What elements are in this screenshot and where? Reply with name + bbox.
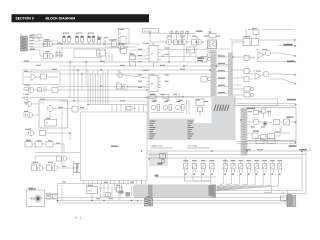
module label 2: [187, 146, 209, 148]
wire: [45, 195, 58, 199]
transistor Q14: [195, 50, 222, 57]
svg-text:BLOCK DIAGRAM: BLOCK DIAGRAM: [46, 17, 76, 21]
wire: [60, 100, 147, 104]
accessory connector: [281, 192, 296, 206]
wire: [142, 150, 217, 184]
svg-text:MAIN UNIT: MAIN UNIT: [152, 145, 164, 148]
svg-text:RX UNIT: RX UNIT: [144, 31, 153, 33]
module label 1: [151, 145, 173, 148]
svg-text:L1: L1: [62, 34, 64, 36]
op-amp U2: [253, 61, 297, 85]
pa transistor Q11: [247, 108, 283, 126]
page number: [75, 216, 81, 220]
ground bus: [58, 185, 286, 203]
capacitor bank: [99, 184, 112, 198]
relay boxes right: [244, 56, 255, 82]
wire dots 2: [61, 41, 286, 201]
svg-text:J2: J2: [73, 161, 75, 163]
svg-text:REG: REG: [88, 190, 93, 192]
pin name column 1: [150, 121, 156, 139]
mixer loop frame: [74, 49, 100, 58]
svg-text:L2: L2: [75, 34, 77, 36]
ribbon cable A: [211, 50, 217, 107]
pa filter boxes: [284, 119, 290, 125]
IC1 IF amp: [140, 44, 161, 68]
op-amp U1 mute: [256, 50, 297, 63]
volume pot: [53, 194, 58, 199]
filter L3: [87, 34, 95, 44]
speaker box: [26, 188, 44, 206]
speaker SP1: [30, 195, 42, 202]
resistor R45: [47, 193, 52, 199]
wire: [205, 28, 245, 58]
capacitor C40: [116, 187, 122, 200]
title bar: [12, 14, 150, 22]
svg-text:IC101: IC101: [150, 44, 156, 46]
svg-text:L3: L3: [87, 34, 89, 36]
tx vco cluster: [208, 32, 218, 49]
wire: [233, 57, 246, 85]
resistor R33: [127, 107, 137, 111]
svg-text:SECTION 9: SECTION 9: [16, 17, 34, 21]
wire: [246, 57, 255, 74]
wire: [217, 57, 229, 94]
choke coil: [118, 181, 134, 198]
wire: [230, 39, 297, 46]
svg-text:Q16: Q16: [116, 82, 120, 84]
transistor Q4: [165, 37, 178, 62]
wire: [148, 141, 310, 158]
discriminator X1: [118, 46, 127, 53]
pot feed wires: [186, 158, 226, 164]
IC2 audio: [140, 74, 161, 92]
trim pot R62: [231, 160, 236, 175]
svg-text:J3: J3: [282, 192, 284, 194]
trim pot R61: [223, 160, 228, 175]
resistor R8: [56, 50, 61, 58]
wire: [130, 50, 206, 60]
label box: [143, 29, 159, 34]
trim pot R51: [183, 160, 188, 175]
filter L1: [62, 34, 70, 44]
lpf cluster: [25, 139, 64, 147]
module top label: [235, 99, 298, 106]
wire: [54, 44, 122, 48]
vhf pa module frame: [241, 108, 297, 156]
trim pot R52: [192, 160, 197, 175]
resistor R30: [148, 92, 156, 103]
svg-text:PLL UNIT: PLL UNIT: [188, 146, 198, 148]
driver box: [281, 117, 297, 134]
vertical wire: [302, 144, 310, 194]
component value labels: [24, 28, 271, 199]
wire bus: [22, 62, 228, 74]
wire: [264, 185, 288, 203]
wire: [22, 87, 147, 98]
ribbon cable B: [228, 52, 233, 100]
net label: [245, 149, 307, 150]
trim pot R53: [201, 160, 206, 175]
trim pot R68: [277, 160, 282, 175]
mic amp Q13: [47, 163, 79, 170]
audio section frame: [23, 72, 60, 85]
module inner coils: [151, 100, 189, 114]
trim pot R54: [210, 160, 215, 175]
transistor Q8 pll: [25, 99, 39, 106]
transistor Q1 rf amp: [44, 39, 55, 46]
trim pot R64: [246, 160, 251, 175]
transistor Q7: [27, 85, 147, 92]
capacitor C2: [31, 35, 41, 42]
power filter box: [86, 184, 98, 200]
wire: [29, 38, 141, 50]
connector J1: [20, 34, 34, 51]
transistor Q10 vco: [27, 128, 70, 140]
oscillator X2: [246, 28, 259, 39]
mic amp Q12: [31, 163, 46, 171]
net label TX: [197, 58, 204, 62]
capacitor strings top: [170, 30, 203, 40]
wire: [159, 32, 197, 34]
wire: [150, 33, 204, 42]
svg-text:9 - 1: 9 - 1: [75, 216, 81, 220]
wire: [262, 30, 297, 47]
transistor Q9: [26, 110, 39, 117]
ribbon band: [134, 185, 216, 198]
filter L2: [75, 34, 83, 44]
trim pot R66: [262, 160, 267, 175]
pot wires to ribbon: [184, 173, 278, 191]
fan junction: [209, 185, 215, 196]
antenna switch boxes: [256, 139, 280, 144]
ribbon hatch joint: [214, 105, 229, 112]
main board module: [147, 96, 236, 140]
mixer box: [97, 50, 106, 62]
net labels: [218, 56, 225, 94]
capacitor C21: [24, 112, 26, 118]
svg-text:U1: U1: [256, 50, 258, 52]
wire: [58, 183, 135, 185]
af amp cluster: [57, 156, 69, 165]
pll section box: [39, 100, 68, 128]
buffer Q21: [201, 77, 217, 83]
filter L4: [97, 36, 100, 46]
svg-text:U2: U2: [253, 71, 255, 73]
buffer box mid: [68, 107, 89, 113]
vertical bus mid: [88, 70, 108, 105]
trim pot R67: [270, 160, 275, 175]
transistor Q16: [116, 82, 146, 90]
wire: [62, 62, 85, 201]
wire: [61, 110, 63, 155]
small box row: [233, 87, 254, 98]
trim pot R65: [254, 160, 259, 175]
mixer box 2: [187, 47, 195, 57]
transistor Q3 cluster: [106, 41, 137, 50]
capacitor C15: [38, 86, 47, 92]
svg-text:X1: X1: [120, 46, 122, 48]
trim pot R63: [238, 160, 243, 175]
wire: [64, 43, 112, 45]
wire: [35, 156, 78, 168]
wire: [216, 191, 306, 194]
transistor Q2 rf amp: [40, 48, 62, 59]
cpu top stubs: [112, 105, 144, 113]
power line parts: [115, 184, 117, 192]
op-amp U3 squelch: [24, 72, 58, 81]
resistor cluster: [104, 50, 112, 62]
cpu unit box: [81, 112, 148, 184]
vertical bus: [70, 62, 86, 105]
wire: [35, 144, 148, 156]
resistor string: [23, 94, 27, 100]
pin name column 2: [188, 121, 194, 139]
transistor Q6: [192, 37, 204, 56]
sub board: [148, 152, 168, 166]
pa lower parts: [248, 128, 280, 140]
crystal filter box: [119, 29, 130, 48]
buffer Q20: [201, 57, 217, 63]
wire junctions: [43, 32, 303, 201]
module components: [149, 94, 204, 117]
transistor Q15: [116, 70, 146, 78]
buffer box B1: [243, 36, 259, 45]
wire: [241, 120, 246, 126]
ceramic filter: [129, 53, 136, 66]
resistor R19: [24, 88, 29, 90]
capacitor C11: [103, 38, 106, 47]
power connector: [143, 196, 153, 206]
transistor Q5: [179, 37, 189, 62]
connector J2: [73, 161, 81, 172]
